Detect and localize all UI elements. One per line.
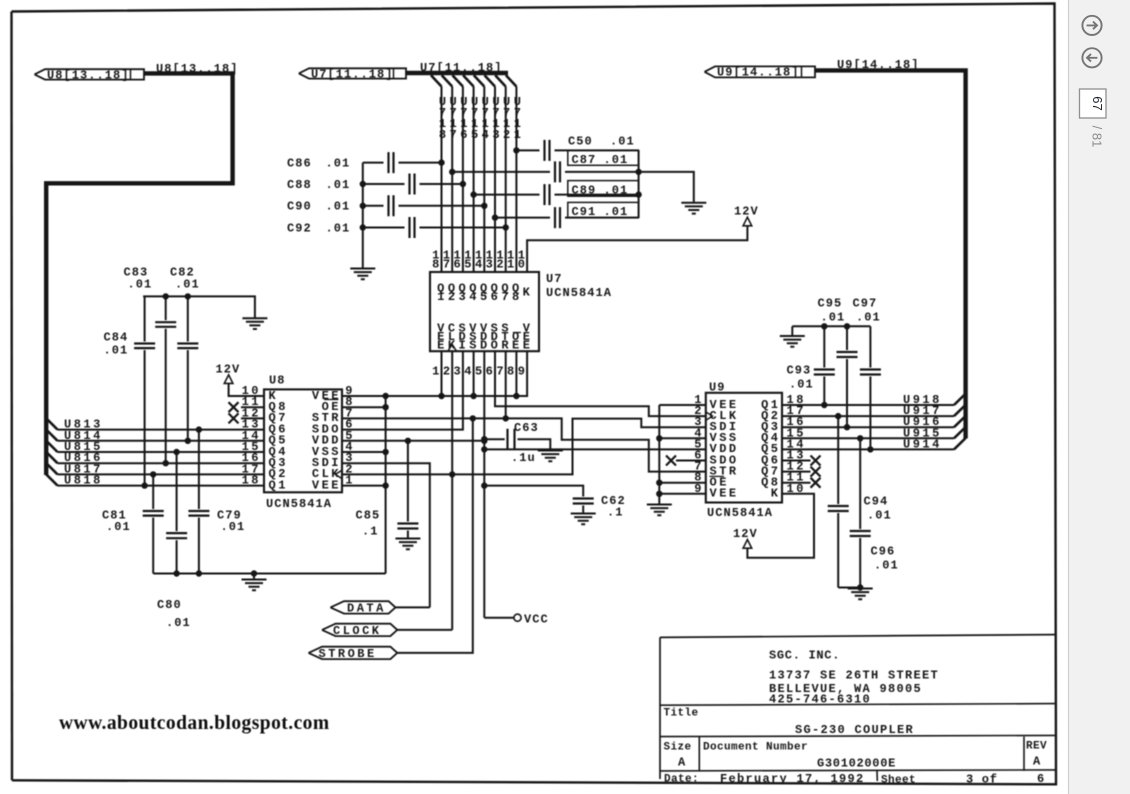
svg-text:0: 0 [518, 258, 528, 272]
U7 top pin numbers 18-10 [432, 249, 527, 272]
svg-text:Size: Size [664, 741, 692, 753]
capacitor C93 [787, 326, 835, 405]
svg-text:5: 5 [471, 128, 481, 142]
svg-text:Document Number: Document Number [703, 741, 808, 753]
wire U9 pin9 VEE stub [659, 493, 706, 495]
svg-text:A: A [678, 756, 686, 770]
svg-text:REV: REV [1026, 740, 1047, 752]
wire VDD row U8 pin5 [342, 438, 487, 443]
svg-text:U7: U7 [546, 272, 563, 286]
svg-text:4: 4 [482, 128, 492, 142]
svg-text:www.aboutcodan.blogspot.com: www.aboutcodan.blogspot.com [59, 713, 330, 734]
svg-text:4: 4 [469, 290, 479, 304]
U8 right pin numbers [345, 384, 355, 488]
svg-text:.01: .01 [874, 559, 899, 573]
wire strobe net STR row and staircase to U9 pin7 [342, 416, 706, 472]
svg-text:.01: .01 [166, 616, 191, 630]
svg-text:.01: .01 [604, 205, 629, 219]
svg-text:3: 3 [459, 290, 469, 304]
label box C87 .01 [568, 150, 639, 167]
wire U8 pin1 VEE to C62 branch [482, 483, 584, 497]
svg-text:K: K [771, 487, 781, 501]
svg-text:.01: .01 [128, 278, 153, 292]
svg-text:C97: C97 [853, 297, 878, 311]
transistor-array U8 chip body UCN5841A [264, 389, 342, 492]
svg-text:1: 1 [437, 290, 447, 304]
svg-text:8: 8 [507, 365, 517, 379]
svg-text:C63: C63 [514, 421, 539, 435]
svg-text:VEE: VEE [312, 478, 341, 492]
svg-text:8: 8 [512, 290, 522, 304]
ground bottom rail [242, 580, 267, 591]
capacitor C97 [853, 297, 881, 450]
svg-text:6: 6 [460, 128, 470, 142]
capacitor C95 [818, 297, 858, 428]
svg-text:U9[14..18]: U9[14..18] [717, 66, 800, 80]
svg-text:U7[11..18]: U7[11..18] [311, 67, 394, 81]
svg-text:2: 2 [503, 128, 513, 142]
svg-text:Date:: Date: [664, 774, 699, 786]
U9 inside left pin names [710, 398, 739, 501]
svg-text:E: E [512, 339, 522, 353]
svg-text:C96: C96 [871, 545, 896, 559]
wire U9 ground bus vertical [657, 405, 706, 505]
wire U7 K pin to 12V [527, 227, 747, 273]
svg-text:5: 5 [475, 365, 485, 379]
svg-text:S: S [469, 339, 479, 353]
bus flag U8[13..18] [35, 68, 145, 82]
svg-text:8: 8 [432, 258, 442, 272]
svg-text:UCN5841A: UCN5841A [707, 506, 773, 520]
junction C79 to U813 [196, 427, 201, 432]
label box C89 .01 [568, 181, 639, 198]
driver U9 chip body UCN5841A [706, 393, 782, 503]
capacitor C87 [450, 161, 639, 182]
wire U7 VDD OVCC vertical [483, 351, 485, 618]
svg-text:3: 3 [492, 128, 502, 142]
ground right cap bank [681, 203, 706, 214]
capacitor C94 [828, 416, 892, 587]
svg-text:I: I [459, 339, 469, 353]
svg-text:C50: C50 [568, 135, 593, 149]
ground U9 [647, 505, 672, 516]
power 12V below U9 [733, 527, 758, 548]
svg-text:U9: U9 [709, 380, 726, 394]
wire STROBE flag stub and riser [397, 418, 473, 653]
wire U8 pin9 VEE row [342, 351, 527, 398]
svg-text:Title: Title [664, 708, 699, 720]
svg-text:2: 2 [443, 365, 453, 379]
wire U7 top pin wires [442, 87, 517, 273]
viewer page number box 67 [1080, 89, 1107, 118]
ground C94 C96 [848, 589, 873, 600]
capacitor C85 [356, 441, 419, 539]
svg-text:/ 81: / 81 [1090, 126, 1105, 148]
svg-text:Sheet: Sheet [881, 775, 916, 787]
bus U7 thick wire [406, 71, 508, 75]
power 12V top right [734, 205, 759, 226]
svg-text:.01: .01 [106, 520, 131, 534]
junction C84 to U818 [142, 483, 147, 488]
svg-text:February 17, 1992: February 17, 1992 [720, 772, 865, 786]
wire U7 pin2 CLK drop to CLOCK flag [451, 351, 453, 630]
U8 clock input triangle pin 2 [335, 470, 342, 478]
wire U7 pin4 VSS drop [473, 351, 475, 396]
svg-text:C89: C89 [572, 183, 597, 197]
bus flag U9[14..18] [705, 66, 816, 80]
wire U8 pin6 VSS row [342, 451, 386, 453]
wire U914 [782, 447, 954, 452]
capacitor C83 [124, 266, 177, 464]
flag DATA [330, 601, 395, 615]
wire DATA flag stub [396, 606, 430, 608]
svg-text:9: 9 [518, 365, 528, 379]
U9 left pin numbers [694, 393, 704, 496]
capacitor C92 [287, 217, 506, 238]
U9 clock input triangle pin 2 [706, 412, 713, 420]
svg-text:E: E [437, 339, 447, 353]
svg-text:SGC. INC.: SGC. INC. [769, 649, 840, 663]
capacitor C84 [104, 296, 156, 485]
wire U9 pin4 VSS stub [659, 437, 706, 439]
svg-text:.1u: .1u [511, 451, 536, 465]
svg-text:STROBE: STROBE [319, 647, 377, 661]
bus U8 fan-out diagonals [46, 418, 57, 485]
capacitor C81 [102, 474, 164, 573]
wire U916 [782, 425, 954, 430]
capacitor C80 [157, 452, 191, 630]
capacitor C63 [482, 421, 551, 465]
viewer back arrow button [1082, 48, 1101, 67]
svg-text:2: 2 [496, 258, 506, 272]
no-connect X U8 pin 12 [229, 413, 265, 423]
bus U7 fan-out diagonals [431, 75, 516, 86]
U9 inside right pin names [761, 398, 780, 501]
ground below left capacitor bank [350, 269, 375, 280]
wire U818 [58, 485, 265, 487]
svg-text:.01: .01 [326, 157, 351, 171]
svg-text:.01: .01 [821, 311, 846, 325]
svg-text:2: 2 [448, 290, 458, 304]
viewer sidebar background [1069, 0, 1130, 794]
capacitor C82 [170, 266, 200, 441]
U7 clock input triangle pin 2 [448, 344, 457, 351]
svg-text:.01: .01 [104, 344, 129, 358]
svg-text:.01: .01 [326, 178, 351, 192]
svg-text:DATA: DATA [347, 602, 386, 616]
wire U813 [58, 429, 265, 431]
label box C91 .01 [568, 202, 639, 219]
svg-text:12V: 12V [733, 527, 758, 541]
bus U9 fan-out diagonals [954, 394, 966, 450]
svg-text:7: 7 [501, 290, 511, 304]
svg-text:7: 7 [450, 128, 460, 142]
wire U815 [58, 451, 265, 453]
svg-text:C94: C94 [864, 495, 889, 509]
junction C90 to U714 [482, 203, 487, 208]
svg-text:.1: .1 [607, 506, 624, 520]
wire CLOCK flag stub [397, 629, 452, 631]
power 12V at U8 [216, 363, 241, 384]
capacitor C91 [492, 207, 638, 228]
svg-text:C95: C95 [818, 297, 843, 311]
svg-text:3 of: 3 of [966, 773, 998, 787]
svg-text:UCN5841A: UCN5841A [266, 497, 332, 511]
svg-text:1: 1 [514, 128, 524, 142]
no-connect X U9 pin6 SDO [666, 456, 706, 466]
svg-text:C80: C80 [157, 598, 182, 612]
wire U8 SDI to DATA [342, 463, 430, 607]
svg-text:6: 6 [491, 290, 501, 304]
svg-text:.01: .01 [867, 509, 892, 523]
viewer forward arrow button [1082, 16, 1101, 35]
wire clock net row and staircase to U9 pin3 [342, 419, 706, 477]
svg-text:1: 1 [432, 365, 442, 379]
svg-text:.01: .01 [604, 183, 629, 197]
wire U8 SDO to U7 SDI [342, 351, 463, 429]
svg-text:C85: C85 [356, 509, 381, 523]
svg-text:U8[13..18]: U8[13..18] [47, 68, 130, 82]
svg-text:VCC: VCC [524, 612, 549, 626]
no-connect X U8 pin 11 [229, 402, 265, 412]
wire U9 K pin to 12V [747, 494, 814, 558]
wire VDD branch to U9 pin5 [482, 447, 706, 452]
svg-text:12V: 12V [734, 205, 759, 219]
svg-text:CLOCK: CLOCK [333, 624, 382, 638]
net labels U718-U711 vertical stacks [439, 95, 524, 142]
svg-text:6: 6 [1037, 772, 1045, 786]
node OVCC [484, 612, 548, 626]
bus U9 thick wire [815, 70, 966, 438]
svg-text:12V: 12V [216, 363, 241, 377]
svg-text:C92: C92 [287, 221, 312, 235]
svg-text:UCN5841A: UCN5841A [546, 286, 612, 300]
capacitor C79 [188, 430, 245, 574]
svg-text:.01: .01 [326, 200, 351, 214]
svg-text:.01: .01 [175, 278, 200, 292]
svg-text:C86: C86 [287, 157, 312, 171]
svg-text:.1: .1 [362, 525, 379, 539]
svg-text:Q1: Q1 [269, 478, 288, 492]
svg-text:4: 4 [464, 365, 474, 379]
capacitor C62 [573, 494, 626, 520]
junction C88 to U716 [460, 181, 465, 186]
svg-text:VEE: VEE [710, 487, 739, 501]
svg-text:7: 7 [496, 365, 506, 379]
capacitor C89 [471, 184, 639, 205]
svg-text:5: 5 [480, 290, 490, 304]
svg-text:5: 5 [464, 258, 474, 272]
ground C62 [571, 514, 596, 525]
U7 inside top pin names Q1-Q8 K [437, 282, 532, 305]
junction C80 to U815 [174, 449, 179, 454]
svg-text:O: O [491, 339, 501, 353]
wire U7 pin7 STR drop [505, 351, 507, 418]
U9 right pin numbers [787, 393, 806, 496]
svg-text:A: A [1033, 755, 1041, 769]
capacitor C86 [287, 152, 442, 173]
op-amp U7 chip body UCN5841A [430, 272, 539, 351]
ground right cap top rail [780, 336, 805, 347]
svg-text:K: K [523, 286, 533, 300]
svg-text:3: 3 [454, 365, 464, 379]
junction C86 to U718 [439, 160, 444, 165]
U8 left pin numbers [242, 384, 261, 488]
svg-text:C87: C87 [572, 153, 597, 167]
flag STROBE [309, 647, 398, 661]
wire bottom ground rail [153, 571, 385, 580]
svg-text:.01: .01 [221, 520, 246, 534]
capacitor C90 [287, 195, 484, 216]
U7 bottom pin numbers 1-9 [432, 365, 527, 379]
U8 inside right pin names [312, 389, 341, 493]
ground C85 [395, 539, 420, 550]
svg-text:.01: .01 [856, 311, 881, 325]
wire left cap top rail [143, 294, 255, 319]
wire U917 [782, 413, 954, 418]
wire C94 C96 ground link [838, 585, 863, 590]
capacitor C88 [287, 174, 463, 195]
ground C63 [538, 451, 563, 462]
svg-text:6: 6 [454, 258, 464, 272]
wire U8 pin1 VEE row [342, 485, 386, 487]
no-connect X U9 pin11 [782, 478, 821, 488]
svg-text:.01: .01 [789, 378, 814, 392]
svg-text:425-746-6310: 425-746-6310 [769, 693, 871, 707]
wire U816 [58, 462, 265, 464]
wire U915 [782, 436, 954, 441]
wire U918 [782, 402, 954, 407]
svg-text:67: 67 [1090, 96, 1105, 110]
svg-text:7: 7 [443, 258, 453, 272]
wire U7 SDO staircase to U9 pin2 [495, 351, 706, 416]
svg-text:.01: .01 [610, 135, 635, 149]
junction C82 to U814 [185, 438, 190, 443]
junction C80 to ground rail [174, 571, 179, 576]
bus U8 thick wire [46, 73, 232, 475]
svg-text:E: E [523, 339, 533, 353]
no-connect X U9 pin13 [782, 456, 821, 466]
svg-text:C84: C84 [104, 331, 129, 345]
svg-text:C91: C91 [572, 205, 597, 219]
junction C83 to U816 [163, 461, 168, 466]
wire U7 pin8 OE drop [515, 351, 517, 396]
svg-text:D: D [480, 339, 490, 353]
wire U8 pin8 OE row [342, 406, 386, 408]
wire U814 [58, 440, 265, 442]
wire U7 pin1 VEE drop [441, 351, 443, 396]
bus flag U7[11..18] [299, 67, 406, 81]
svg-text:1: 1 [507, 258, 517, 272]
wire left capacitor bank vertical [362, 163, 364, 269]
wire right cap top rail [792, 324, 870, 336]
wire U9 pin8 OE stub [659, 482, 706, 484]
junction C92 to U712 [503, 225, 508, 230]
wire U817 [58, 473, 265, 475]
svg-text:8: 8 [439, 128, 449, 142]
U7 inside bottom pin names [437, 322, 532, 353]
svg-text:3: 3 [486, 258, 496, 272]
svg-text:.01: .01 [326, 221, 351, 235]
svg-text:.01: .01 [604, 153, 629, 167]
svg-text:C90: C90 [287, 200, 312, 214]
svg-text:C88: C88 [287, 178, 312, 192]
flag CLOCK [322, 624, 397, 638]
svg-text:G30102000E: G30102000E [817, 756, 896, 770]
wire right cap bank to ground [636, 150, 694, 217]
wire U8 VEE OE ground bus vertical [383, 393, 388, 573]
junction C79 to ground rail [196, 571, 201, 576]
svg-text:R: R [501, 339, 511, 353]
title block frame [660, 635, 1055, 781]
U8 inside left pin names [269, 389, 288, 493]
svg-text:13737 SE 26TH STREET: 13737 SE 26TH STREET [769, 668, 939, 682]
junction C81 to U817 [151, 472, 156, 477]
svg-text:SG-230 COUPLER: SG-230 COUPLER [795, 723, 914, 737]
svg-text:6: 6 [486, 365, 496, 379]
capacitor C50 [514, 135, 639, 161]
wire 12V to U8 pin 10 [229, 384, 264, 396]
ground left cap top rail [242, 318, 267, 329]
svg-text:4: 4 [475, 258, 485, 272]
no-connect X U9 pin12 [782, 467, 821, 477]
capacitor C96 [850, 438, 899, 588]
svg-text:U8: U8 [269, 374, 286, 388]
svg-text:C93: C93 [787, 364, 812, 378]
